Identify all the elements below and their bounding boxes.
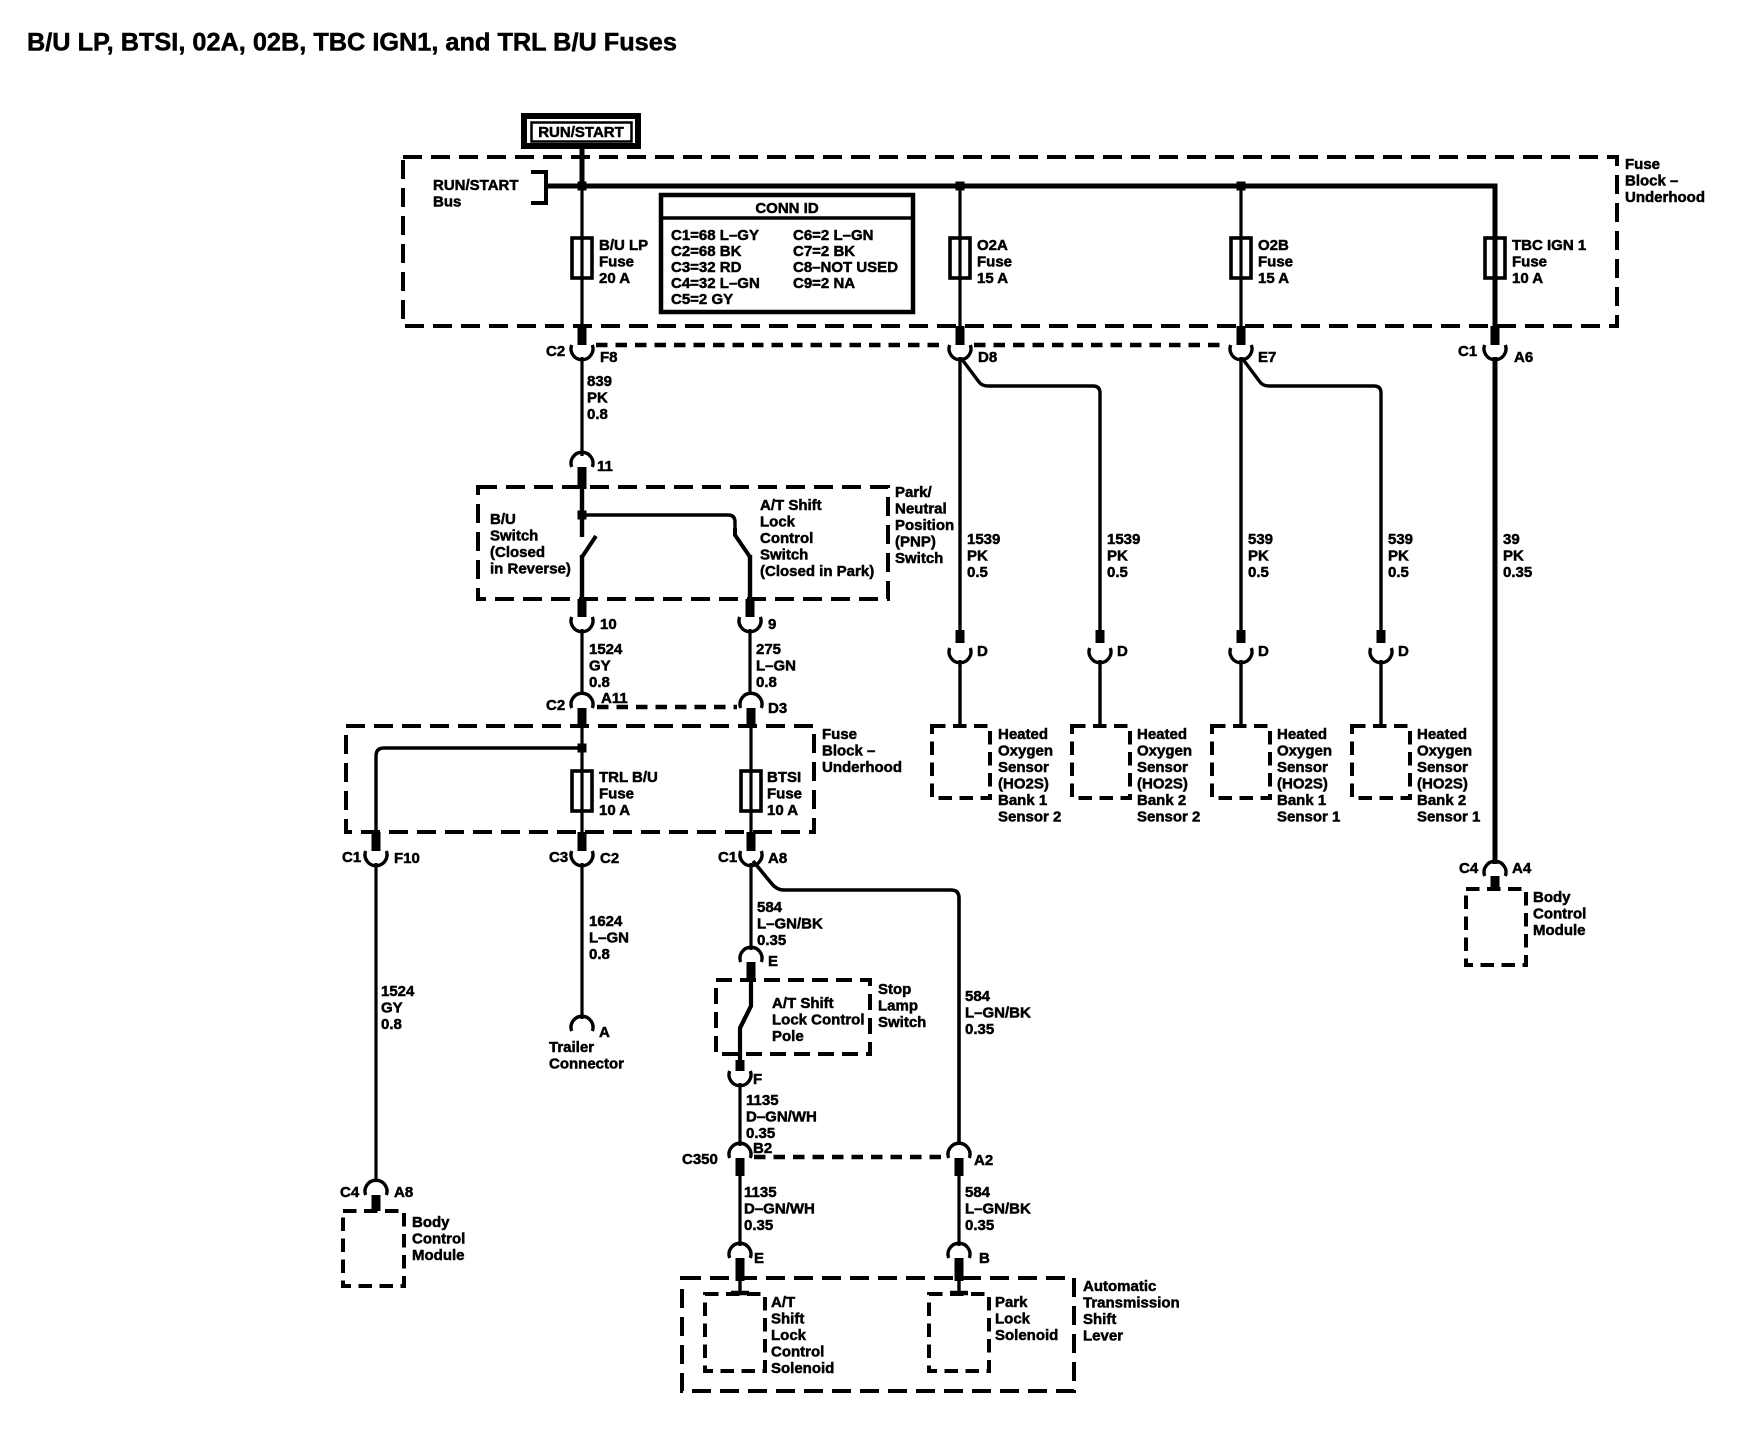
svg-text:L–GN/BK: L–GN/BK [965,1201,1031,1218]
svg-text:GY: GY [589,658,611,675]
svg-text:(HO2S): (HO2S) [1137,776,1188,793]
svg-text:C3: C3 [549,849,568,866]
svg-text:0.35: 0.35 [965,1217,994,1234]
title [27,29,677,57]
connector C4/A4 BCM right [1459,860,1532,889]
svg-text:Switch: Switch [895,550,943,567]
label RUN/START Bus [433,177,519,211]
node B/U switch junction [578,511,587,520]
label 584 right [965,988,1031,1038]
svg-text:L–GN: L–GN [756,658,796,675]
svg-text:0.35: 0.35 [1503,564,1532,581]
svg-text:Control: Control [412,1231,465,1248]
connector D ho2s 3 [1230,630,1269,663]
svg-text:Sensor: Sensor [1137,759,1188,776]
wire branch to A/T shift lock control switch [582,515,735,529]
svg-text:Heated: Heated [1277,726,1327,743]
fuse block underhood box [403,157,1617,326]
label B/U Switch [490,511,571,578]
svg-text:275: 275 [756,641,781,658]
wire O2B fuse drop [1239,186,1242,326]
svg-text:0.8: 0.8 [587,406,608,423]
connector C1/A8 [718,832,787,867]
svg-text:Transmission: Transmission [1083,1295,1180,1312]
switch blade B/U (closed in reverse) [582,536,596,557]
svg-text:C6=2 L–GN: C6=2 L–GN [793,227,873,244]
svg-text:Sensor 1: Sensor 1 [1417,809,1480,826]
svg-text:PK: PK [587,390,608,407]
svg-text:C1=68 L–GY: C1=68 L–GY [671,227,759,244]
connector E stop lamp [740,947,778,982]
svg-text:1524: 1524 [381,983,415,1000]
svg-text:839: 839 [587,373,612,390]
svg-text:0.35: 0.35 [965,1021,994,1038]
switch pole stop lamp [740,982,751,1060]
svg-text:Fuse: Fuse [599,254,634,271]
wire 39 PK TBC [1495,357,1532,864]
wire 584 branch to stop lamp switch net [753,861,959,1145]
svg-text:10 A: 10 A [599,802,630,819]
connector A trailer [571,1016,610,1041]
svg-text:Control: Control [760,530,813,547]
wire B/U LP fuse drop [580,186,583,326]
svg-text:F8: F8 [600,349,618,366]
CONN ID table [661,195,913,312]
svg-text:Underhood: Underhood [822,759,902,776]
svg-text:Park: Park [995,1294,1028,1311]
dotted net F8 to D8 [596,343,944,347]
svg-text:Sensor 2: Sensor 2 [1137,809,1200,826]
svg-text:Bank 2: Bank 2 [1137,792,1186,809]
svg-text:10: 10 [600,616,617,633]
svg-text:A/T Shift: A/T Shift [772,995,834,1012]
svg-text:Fuse: Fuse [1625,156,1660,173]
connector A2 [948,1143,993,1176]
dotted net D8 to E7 [974,343,1227,347]
svg-text:C4: C4 [1459,860,1479,877]
wire D to HO2S box 1 [958,660,961,726]
svg-text:A6: A6 [1514,349,1533,366]
label 1539 PK 0.5 first [967,531,1000,581]
svg-text:D: D [1117,643,1128,660]
wire O2B HO2S bank1 sensor1 [1239,357,1242,630]
bracket RUN/START Bus [531,172,546,203]
wire D to HO2S box 3 [1239,660,1242,726]
wire RUN/START bus [548,186,1495,236]
automatic transmission shift lever box [682,1278,1074,1391]
label 539 PK 0.5 second [1388,531,1413,581]
svg-text:CONN ID: CONN ID [755,200,819,217]
wire 275 L-GN [750,629,796,695]
svg-text:(Closed: (Closed [490,544,545,561]
svg-text:1135: 1135 [744,1184,777,1201]
svg-text:Heated: Heated [1137,726,1187,743]
svg-text:A/T Shift: A/T Shift [760,497,822,514]
svg-text:F10: F10 [394,850,420,867]
svg-text:A: A [599,1024,610,1041]
fuse O2A 15 A [950,237,1012,287]
svg-text:Heated: Heated [998,726,1048,743]
svg-text:Fuse: Fuse [977,254,1012,271]
svg-text:TRL B/U: TRL B/U [599,769,658,786]
RUN/START keyword box [524,116,638,146]
svg-text:Pole: Pole [772,1028,804,1045]
fuse BTSI 10 A [741,769,802,819]
svg-text:539: 539 [1388,531,1413,548]
node TRL feed junction [578,744,587,753]
svg-text:Fuse: Fuse [1258,254,1293,271]
connector C1/F10 [342,832,420,867]
wire O2A fuse drop [958,186,961,326]
svg-text:0.5: 0.5 [1107,564,1128,581]
svg-text:C350: C350 [682,1151,718,1168]
svg-text:E: E [768,953,778,970]
svg-text:Sensor 2: Sensor 2 [998,809,1061,826]
wire 1135 lower [740,1176,815,1246]
label 1539 PK 0.5 second [1107,531,1140,581]
svg-text:A4: A4 [1512,860,1532,877]
label Automatic Transmission Shift Lever [1083,1278,1180,1345]
svg-text:C4=32 L–GN: C4=32 L–GN [671,275,760,292]
svg-text:0.35: 0.35 [744,1217,773,1234]
connector E7 [1230,326,1276,366]
svg-text:A11: A11 [601,690,628,707]
connector C1/A6 [1458,326,1533,366]
svg-text:E7: E7 [1258,349,1276,366]
svg-text:RUN/START: RUN/START [433,177,519,194]
svg-text:Lock: Lock [760,514,796,531]
svg-text:TBC IGN 1: TBC IGN 1 [1512,237,1586,254]
svg-text:Trailer: Trailer [549,1039,594,1056]
PNP switch box [478,487,888,599]
connector C350 B2 [682,1140,772,1176]
svg-text:Lock Control: Lock Control [772,1012,865,1029]
svg-text:584: 584 [965,988,991,1005]
svg-text:15 A: 15 A [977,270,1008,287]
svg-text:C2: C2 [600,850,619,867]
svg-text:B/U LP, BTSI, 02A, 02B, TBC IG: B/U LP, BTSI, 02A, 02B, TBC IGN1, and TR… [27,29,677,57]
connector B solenoid [948,1243,990,1281]
svg-text:Stop: Stop [878,981,911,998]
svg-text:GY: GY [381,1000,403,1017]
svg-text:39: 39 [1503,531,1520,548]
wire O2A HO2S bank2 sensor2 [961,358,1100,630]
svg-text:Bank 2: Bank 2 [1417,792,1466,809]
svg-text:1539: 1539 [1107,531,1140,548]
svg-text:Fuse: Fuse [767,786,802,803]
svg-text:D: D [977,643,988,660]
svg-text:1135: 1135 [746,1092,779,1109]
wire B/U switch to pin 10 [580,555,584,599]
svg-text:0.35: 0.35 [757,932,786,949]
svg-text:Sensor: Sensor [1417,759,1468,776]
svg-text:Shift: Shift [771,1311,804,1328]
svg-text:F: F [753,1071,762,1088]
svg-text:C5=2 GY: C5=2 GY [671,291,733,308]
label Fuse Block Underhood 2 [822,726,902,776]
svg-text:Oxygen: Oxygen [1417,743,1472,760]
wire TRL B/U fuse drop [580,728,583,832]
wire into park lock solenoid [950,1281,968,1293]
svg-text:Oxygen: Oxygen [998,743,1053,760]
svg-text:20 A: 20 A [599,270,630,287]
svg-text:O2A: O2A [977,237,1008,254]
svg-text:Sensor: Sensor [998,759,1049,776]
wire 584 upper [751,863,823,950]
svg-text:L–GN: L–GN [589,930,629,947]
dotted net B2 to A2 [754,1155,944,1159]
svg-text:0.5: 0.5 [1248,564,1269,581]
connector C4/A8 BCM [340,1180,413,1211]
fuse O2B 15 A [1231,237,1293,287]
svg-text:D8: D8 [978,349,997,366]
label A/T Shift Lock Control Pole [772,995,865,1045]
svg-text:Block –: Block – [1625,173,1678,190]
wire 1524 GY upper [582,629,623,695]
svg-text:0.8: 0.8 [589,946,610,963]
wire BTSI fuse drop [749,728,752,832]
svg-text:C1: C1 [1458,343,1477,360]
svg-text:Oxygen: Oxygen [1137,743,1192,760]
body control module box left [343,1211,465,1286]
svg-text:Solenoid: Solenoid [995,1327,1058,1344]
svg-text:B2: B2 [753,1140,772,1157]
svg-text:C8–NOT USED: C8–NOT USED [793,259,898,276]
switch blade A/T (closed in park) [735,528,750,557]
connector C2/A11 [546,690,628,728]
body control module box right [1466,889,1586,965]
svg-text:Body: Body [412,1214,450,1231]
svg-text:B: B [979,1250,990,1267]
svg-text:D–GN/WH: D–GN/WH [744,1201,815,1218]
svg-text:C2=68 BK: C2=68 BK [671,243,742,260]
svg-text:Lock: Lock [995,1311,1031,1328]
connector pin 10 [571,599,617,633]
svg-text:Switch: Switch [878,1014,926,1031]
svg-text:A2: A2 [974,1152,993,1169]
svg-text:Oxygen: Oxygen [1277,743,1332,760]
HO2S bank 1 sensor 1 box [1212,726,1340,826]
svg-text:Lock: Lock [771,1327,807,1344]
svg-text:PK: PK [1248,548,1269,565]
svg-text:11: 11 [597,458,613,475]
svg-text:BTSI: BTSI [767,769,801,786]
svg-text:O2B: O2B [1258,237,1289,254]
svg-text:D3: D3 [768,700,787,717]
svg-text:Solenoid: Solenoid [771,1360,834,1377]
connector 11 [571,452,613,489]
svg-text:Park/: Park/ [895,484,933,501]
label A/T Shift Lock Control Switch [760,497,874,580]
svg-text:C1: C1 [718,849,737,866]
svg-text:Sensor: Sensor [1277,759,1328,776]
svg-text:0.5: 0.5 [967,564,988,581]
svg-text:Lamp: Lamp [878,998,918,1015]
wire A/T switch to pin 9 [748,555,752,599]
svg-text:15 A: 15 A [1258,270,1289,287]
svg-text:Bank 1: Bank 1 [998,792,1047,809]
svg-text:L–GN/BK: L–GN/BK [965,1005,1031,1022]
svg-text:Underhood: Underhood [1625,189,1705,206]
svg-text:D: D [1258,643,1269,660]
svg-text:Bus: Bus [433,194,461,211]
connector D8 [949,326,997,366]
svg-text:Bank 1: Bank 1 [1277,792,1326,809]
fuse B/U LP 20 A [572,237,648,287]
svg-text:Shift: Shift [1083,1311,1116,1328]
connector C2/F8 [546,326,618,366]
svg-text:0.8: 0.8 [381,1016,402,1033]
svg-text:0.5: 0.5 [1388,564,1409,581]
fuse block underhood box 2 [346,726,814,832]
svg-text:A8: A8 [768,850,787,867]
svg-text:1624: 1624 [589,913,623,930]
svg-text:Control: Control [1533,906,1586,923]
connector E solenoid [729,1243,764,1281]
svg-text:Position: Position [895,517,954,534]
wire 839 PK [582,357,612,456]
park lock solenoid box [929,1294,1058,1371]
svg-text:1524: 1524 [589,641,623,658]
svg-text:Body: Body [1533,889,1571,906]
svg-text:Switch: Switch [760,547,808,564]
svg-text:Neutral: Neutral [895,501,947,518]
stop lamp switch box [716,980,870,1054]
wire D to HO2S box 4 [1379,660,1382,726]
svg-text:Switch: Switch [490,528,538,545]
svg-text:Automatic: Automatic [1083,1278,1156,1295]
svg-text:584: 584 [965,1184,991,1201]
svg-text:C9=2 NA: C9=2 NA [793,275,855,292]
svg-text:C3=32 RD: C3=32 RD [671,259,742,276]
svg-text:9: 9 [768,616,776,633]
wire 1624 L-GN [582,863,629,1019]
svg-text:RUN/START: RUN/START [538,124,624,141]
svg-text:0.8: 0.8 [589,674,610,691]
svg-text:(HO2S): (HO2S) [1417,776,1468,793]
svg-text:Module: Module [412,1247,465,1264]
wire O2B HO2S bank2 sensor1 [1242,358,1381,630]
svg-text:PK: PK [1107,548,1128,565]
svg-text:C4: C4 [340,1184,360,1201]
label Fuse Block Underhood [1625,156,1705,206]
svg-text:in Reverse): in Reverse) [490,561,571,578]
svg-text:PK: PK [967,548,988,565]
svg-text:10 A: 10 A [767,802,798,819]
wire TBC IGN1 fuse drop [1493,236,1498,326]
label 539 PK 0.5 first [1248,531,1273,581]
connector pin 9 [739,599,776,633]
connector C3/C2 [549,832,619,867]
fuse TRL B/U 10 A [572,769,658,819]
svg-text:Fuse: Fuse [822,726,857,743]
svg-text:A8: A8 [394,1184,413,1201]
connector D ho2s 4 [1370,630,1409,663]
connector D ho2s 2 [1089,630,1128,663]
svg-text:Fuse: Fuse [599,786,634,803]
wire 1135 upper [740,1083,817,1146]
label Park/Neutral Position (PNP) Switch [895,484,954,567]
svg-text:PK: PK [1388,548,1409,565]
wire D to HO2S box 2 [1098,660,1101,726]
svg-text:1539: 1539 [967,531,1000,548]
svg-text:D: D [1398,643,1409,660]
svg-text:C2: C2 [546,343,565,360]
label Trailer Connector [549,1039,624,1073]
svg-text:Sensor 1: Sensor 1 [1277,809,1340,826]
svg-text:(PNP): (PNP) [895,534,936,551]
svg-text:Lever: Lever [1083,1328,1123,1345]
connector F [729,1060,762,1088]
svg-text:L–GN/BK: L–GN/BK [757,916,823,933]
svg-text:10 A: 10 A [1512,270,1543,287]
wire TRL B/U feed [376,748,582,832]
HO2S bank 2 sensor 2 box [1072,726,1200,826]
wire 584 lower [959,1176,1031,1246]
svg-text:(HO2S): (HO2S) [998,776,1049,793]
svg-text:Module: Module [1533,922,1586,939]
svg-text:C2: C2 [546,697,565,714]
svg-text:Block –: Block – [822,743,875,760]
svg-text:E: E [754,1250,764,1267]
svg-text:B/U LP: B/U LP [599,237,648,254]
svg-text:(HO2S): (HO2S) [1277,776,1328,793]
wire RUN/START box to bus [580,149,585,186]
svg-text:B/U: B/U [490,511,516,528]
svg-text:Heated: Heated [1417,726,1467,743]
HO2S bank 2 sensor 1 box [1352,726,1480,826]
svg-text:Fuse: Fuse [1512,254,1547,271]
connector D3 [740,693,787,728]
svg-text:(Closed in Park): (Closed in Park) [760,563,874,580]
label Stop Lamp Switch [878,981,926,1031]
fuse TBC IGN 1 10 A [1485,237,1586,287]
node bus/O2B junction [1237,182,1246,191]
connector D ho2s 1 [949,630,988,663]
svg-text:584: 584 [757,899,783,916]
wire 1524 GY lower [376,863,415,1182]
node bus/B-U LP junction [578,182,587,191]
wire O2A HO2S bank1 sensor2 [958,357,961,630]
wire into B/U switch [580,489,584,537]
HO2S bank 1 sensor 2 box [932,726,1061,826]
svg-text:Connector: Connector [549,1056,624,1073]
svg-text:0.8: 0.8 [756,674,777,691]
A/T shift lock control solenoid box [705,1294,834,1377]
svg-text:D–GN/WH: D–GN/WH [746,1109,817,1126]
svg-text:C1: C1 [342,849,361,866]
wire into A/T shift lock control solenoid [731,1281,749,1293]
dotted net A11 to D3 [597,705,737,709]
node bus/O2A junction [956,182,965,191]
svg-text:C7=2 BK: C7=2 BK [793,243,855,260]
svg-text:539: 539 [1248,531,1273,548]
svg-text:PK: PK [1503,548,1524,565]
svg-text:A/T: A/T [771,1294,795,1311]
svg-text:Control: Control [771,1344,824,1361]
